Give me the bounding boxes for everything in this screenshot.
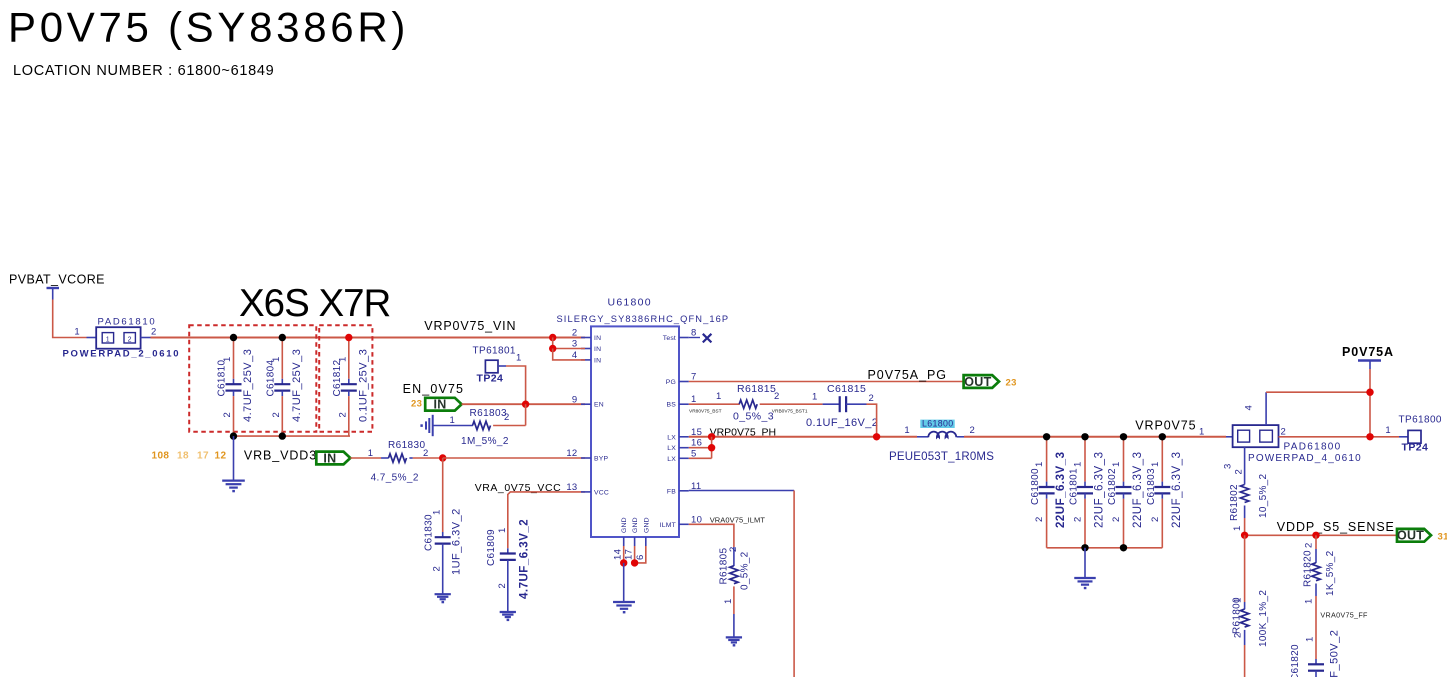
svg-text:1: 1 xyxy=(904,425,910,436)
svg-text:2: 2 xyxy=(1111,516,1122,522)
junction node VDDP-R61800 xyxy=(1241,532,1248,539)
svg-text:2: 2 xyxy=(728,546,739,552)
ground input caps xyxy=(222,480,245,482)
junction node at C61810 top xyxy=(230,334,237,341)
svg-text:6: 6 xyxy=(635,554,646,560)
svg-text:17: 17 xyxy=(197,451,209,462)
testpoint TP61801 xyxy=(485,360,498,373)
svg-text:GND: GND xyxy=(643,517,650,533)
svg-text:31: 31 xyxy=(1438,532,1447,543)
svg-text:C61830: C61830 xyxy=(424,514,435,551)
junction node C61800 top xyxy=(1043,433,1050,440)
pin 4 IN xyxy=(581,359,591,361)
svg-text:OUT: OUT xyxy=(964,375,991,389)
svg-text:1UF_6.3V_2: 1UF_6.3V_2 xyxy=(451,508,463,575)
junction node P0V75A-TP xyxy=(1366,433,1373,440)
svg-text:C61809: C61809 xyxy=(486,529,497,566)
svg-text:PAD61800: PAD61800 xyxy=(1284,442,1342,453)
pin 12 BYP xyxy=(581,457,591,459)
svg-text:VRP0V75_VIN: VRP0V75_VIN xyxy=(424,319,516,333)
svg-text:1: 1 xyxy=(1073,461,1084,467)
svg-text:0_5%_3: 0_5%_3 xyxy=(733,411,774,423)
svg-text:PEUE053T_1R0MS: PEUE053T_1R0MS xyxy=(889,451,994,463)
pin 9 EN xyxy=(581,403,591,405)
net P0V75A_PG xyxy=(689,381,964,383)
svg-text:PG: PG xyxy=(666,379,676,386)
junction node C61802 top xyxy=(1120,433,1127,440)
svg-text:4.7UF_6.3V_2: 4.7UF_6.3V_2 xyxy=(519,519,531,599)
svg-text:VCC: VCC xyxy=(594,489,609,496)
svg-text:VRP0V75: VRP0V75 xyxy=(1135,418,1196,432)
no-connect X on Test pin 8 xyxy=(689,337,700,339)
svg-text:10_5%_2: 10_5%_2 xyxy=(1258,474,1269,518)
capacitor C61801 xyxy=(1084,437,1086,482)
svg-text:2: 2 xyxy=(151,327,157,338)
wire VCC xyxy=(508,492,585,548)
wire LX pins to PH rail xyxy=(689,436,917,438)
svg-text:C61801: C61801 xyxy=(1069,468,1080,505)
junction node out gnd 1 xyxy=(1081,544,1088,551)
svg-text:13: 13 xyxy=(566,482,577,493)
svg-text:17: 17 xyxy=(624,549,635,560)
svg-text:LX: LX xyxy=(667,434,676,441)
svg-text:4.7UF_25V_3: 4.7UF_25V_3 xyxy=(291,349,303,422)
resistor R61830 xyxy=(389,454,407,462)
junction node LX16 xyxy=(708,444,715,451)
svg-text:1: 1 xyxy=(812,392,818,403)
svg-text:P0V75A: P0V75A xyxy=(1342,345,1394,359)
pin 10 ILMT xyxy=(679,523,689,525)
svg-text:2: 2 xyxy=(1233,632,1244,638)
resistor R61800 xyxy=(1244,535,1246,602)
capacitor C61812 xyxy=(348,338,350,379)
svg-text:2: 2 xyxy=(337,412,348,418)
resistor R61803 xyxy=(433,425,473,427)
svg-text:22UF_6.3V_3: 22UF_6.3V_3 xyxy=(1094,452,1106,528)
wire output caps bottom rail xyxy=(1047,547,1163,549)
testpoint TP61800 xyxy=(1408,430,1421,443)
wire input caps bottom rail xyxy=(234,435,351,437)
svg-text:SILERGY_SY8386RHC_QFN_16P: SILERGY_SY8386RHC_QFN_16P xyxy=(557,314,730,324)
junction node at C61804 top xyxy=(279,334,286,341)
svg-text:2: 2 xyxy=(774,391,780,402)
svg-text:TP24: TP24 xyxy=(477,373,504,385)
svg-text:2: 2 xyxy=(271,412,282,418)
svg-text:9: 9 xyxy=(572,394,578,405)
wire R61830 to BYP junction xyxy=(409,457,412,459)
junction node C61815 tap xyxy=(873,433,880,440)
svg-text:X6S X7R: X6S X7R xyxy=(239,282,391,325)
port IN EN_0V75 xyxy=(425,398,461,411)
svg-text:14: 14 xyxy=(613,549,624,560)
svg-text:C61815: C61815 xyxy=(827,383,866,395)
wire PH to output caps rail xyxy=(964,436,1226,438)
svg-text:2: 2 xyxy=(1150,516,1161,522)
svg-text:22UF_6.3V_3: 22UF_6.3V_3 xyxy=(1171,452,1183,528)
resistor R61802 xyxy=(1244,447,1246,484)
svg-text:VRB0V75_BST1: VRB0V75_BST1 xyxy=(772,409,808,415)
svg-text:1: 1 xyxy=(497,527,508,533)
wire PVBAT_VCORE to PAD61810 pin1 xyxy=(53,300,87,338)
svg-text:C61820: C61820 xyxy=(1290,644,1301,677)
svg-text:108: 108 xyxy=(152,451,170,462)
pin 4 wire to P0V75A xyxy=(1265,392,1267,425)
svg-text:C61810: C61810 xyxy=(217,360,228,397)
svg-text:2: 2 xyxy=(1304,542,1315,548)
junction node GND17 xyxy=(631,559,638,566)
svg-text:2: 2 xyxy=(1034,516,1045,522)
svg-text:2: 2 xyxy=(1281,427,1287,438)
svg-text:FB: FB xyxy=(667,488,676,495)
wire to ground xyxy=(1084,548,1086,578)
capacitor C61820 xyxy=(1308,663,1324,665)
svg-text:POWERPAD_4_0610: POWERPAD_4_0610 xyxy=(1248,453,1362,464)
pin 8 Test xyxy=(679,337,689,339)
svg-text:1: 1 xyxy=(1385,425,1391,436)
resistor R61815 xyxy=(739,400,757,408)
svg-text:2: 2 xyxy=(222,412,233,418)
wire PAD61810 pin2 to VIN rail xyxy=(141,337,151,339)
svg-text:LX: LX xyxy=(667,445,676,452)
svg-text:12: 12 xyxy=(215,451,227,462)
svg-text:GND: GND xyxy=(621,517,628,533)
svg-text:TP61800: TP61800 xyxy=(1399,415,1442,426)
dashed selection box around C61812 xyxy=(319,325,372,431)
svg-text:1: 1 xyxy=(1304,598,1315,604)
wire R61803 pin2 to EN vertical xyxy=(493,425,525,427)
svg-text:18: 18 xyxy=(177,451,189,462)
junction node GND14 xyxy=(620,559,627,566)
pin 3 IN xyxy=(581,348,591,350)
svg-text:L61800: L61800 xyxy=(922,419,953,429)
svg-text:R61800: R61800 xyxy=(1232,597,1243,634)
junction node VIN pin2 xyxy=(549,334,556,341)
ground output caps xyxy=(1074,577,1095,579)
pin 13 VCC xyxy=(581,491,591,493)
capacitor C61810 xyxy=(233,338,235,379)
svg-text:4.7_5%_2: 4.7_5%_2 xyxy=(371,473,419,484)
svg-text:0.1UF_50V_2: 0.1UF_50V_2 xyxy=(1329,630,1341,677)
svg-text:LOCATION NUMBER : 61800~61849: LOCATION NUMBER : 61800~61849 xyxy=(13,63,274,79)
pin 11 FB xyxy=(679,490,689,492)
svg-text:P0V75 (SY8386R): P0V75 (SY8386R) xyxy=(8,4,409,51)
svg-text:TP61801: TP61801 xyxy=(473,346,516,357)
svg-text:3: 3 xyxy=(1223,463,1234,469)
svg-text:4: 4 xyxy=(1244,405,1255,411)
wire ILMT xyxy=(689,524,734,547)
svg-text:R61802: R61802 xyxy=(1229,484,1240,521)
svg-text:1M_5%_2: 1M_5%_2 xyxy=(461,436,509,447)
capacitor C61802 xyxy=(1123,437,1125,482)
junction node C61801 top xyxy=(1081,433,1088,440)
capacitor C61804 xyxy=(281,338,283,379)
svg-text:0.1UF_16V_2: 0.1UF_16V_2 xyxy=(806,417,878,429)
ground R61805 xyxy=(726,636,742,638)
pin 6 GND xyxy=(645,537,647,546)
pad PAD61810 POWERPAD_2_0610 xyxy=(96,327,140,349)
svg-text:OUT: OUT xyxy=(1397,529,1424,543)
capacitor C61809 xyxy=(500,552,516,554)
inductor L61800 xyxy=(920,420,954,428)
capacitor C61815 xyxy=(839,396,841,412)
svg-text:GND: GND xyxy=(632,517,639,533)
svg-text:1: 1 xyxy=(432,509,443,515)
junction node VDDP-R61820 xyxy=(1312,532,1319,539)
svg-text:23: 23 xyxy=(1006,378,1017,389)
ground C61830 xyxy=(435,593,451,595)
svg-text:BYP: BYP xyxy=(594,456,608,463)
svg-text:R61803: R61803 xyxy=(470,408,507,419)
wire R61815 to C61815 xyxy=(760,403,823,405)
port OUT P0V75A_PG xyxy=(964,375,999,388)
junction node input gnd rail mid xyxy=(279,432,286,439)
svg-text:PAD61810: PAD61810 xyxy=(98,316,157,327)
svg-text:EN_0V75: EN_0V75 xyxy=(403,382,465,396)
pin 1 BS xyxy=(679,403,689,405)
capacitor C61830 xyxy=(442,458,444,532)
svg-text:1: 1 xyxy=(1111,461,1122,467)
svg-text:ILMT: ILMT xyxy=(660,522,676,529)
svg-text:2: 2 xyxy=(1073,516,1084,522)
svg-text:Test: Test xyxy=(663,335,676,342)
svg-text:1: 1 xyxy=(1150,461,1161,467)
svg-text:1: 1 xyxy=(337,356,348,362)
svg-text:C61802: C61802 xyxy=(1107,468,1118,505)
svg-text:1: 1 xyxy=(516,353,522,364)
wire FB xyxy=(689,490,794,492)
svg-text:C61800: C61800 xyxy=(1030,468,1041,505)
pin 5 LX xyxy=(679,457,689,459)
svg-text:12: 12 xyxy=(566,448,577,459)
pin 16 LX xyxy=(679,447,689,449)
resistor R61805 xyxy=(733,547,735,566)
svg-text:1: 1 xyxy=(106,336,110,343)
dashed selection box around C61810 C61804 xyxy=(189,325,316,431)
pad PAD61800 POWERPAD_4_0610 xyxy=(1233,425,1279,447)
svg-text:IN: IN xyxy=(594,335,601,342)
svg-text:VR80V75_BST: VR80V75_BST xyxy=(689,409,722,415)
net VRA0V75_FF xyxy=(1315,596,1317,659)
svg-text:IN: IN xyxy=(323,451,336,465)
junction node C61803 top xyxy=(1159,433,1166,440)
resistor R61820 xyxy=(1315,535,1317,549)
junction node out gnd 2 xyxy=(1120,544,1127,551)
svg-text:1: 1 xyxy=(1232,525,1243,531)
wire EN net xyxy=(462,403,585,405)
svg-text:2: 2 xyxy=(869,393,875,404)
svg-text:VRB_VDD3: VRB_VDD3 xyxy=(244,449,317,463)
pin 7 PG xyxy=(679,381,689,383)
ground left of R61803 xyxy=(432,415,434,436)
svg-text:2: 2 xyxy=(504,412,510,423)
pin 2 IN xyxy=(581,337,591,339)
svg-text:2: 2 xyxy=(572,328,578,339)
svg-text:1: 1 xyxy=(222,356,233,362)
svg-text:IN: IN xyxy=(594,357,601,364)
junction node BYP xyxy=(439,454,446,461)
svg-text:100K_1%_2: 100K_1%_2 xyxy=(1258,590,1269,647)
svg-text:IN: IN xyxy=(594,346,601,353)
ground IC xyxy=(613,601,635,603)
svg-text:1: 1 xyxy=(271,356,282,362)
ground C61809 xyxy=(500,611,516,613)
svg-text:1: 1 xyxy=(1199,427,1205,438)
svg-text:1: 1 xyxy=(368,448,374,459)
svg-text:VDDP_S5_SENSE: VDDP_S5_SENSE xyxy=(1277,520,1395,534)
svg-text:22UF_6.3V_3: 22UF_6.3V_3 xyxy=(1132,452,1144,528)
wire FB down (off page) xyxy=(793,491,795,677)
svg-text:R61815: R61815 xyxy=(737,383,776,395)
BS pin wire and net names xyxy=(689,403,740,405)
svg-text:1: 1 xyxy=(716,391,722,402)
svg-text:VRA0V75_ILMT: VRA0V75_ILMT xyxy=(710,515,766,524)
svg-text:LX: LX xyxy=(667,456,676,463)
wire pad pin2 to TP61800 xyxy=(1279,436,1400,438)
wire port to R61830 xyxy=(350,457,381,459)
junction node EN xyxy=(522,401,529,408)
svg-text:C61812: C61812 xyxy=(332,360,343,397)
junction node LX15 xyxy=(708,433,715,440)
svg-text:IN: IN xyxy=(433,398,446,412)
svg-text:2: 2 xyxy=(432,566,443,572)
svg-text:POWERPAD_2_0610: POWERPAD_2_0610 xyxy=(63,349,181,360)
wire BYP junction to IC pin 12 xyxy=(443,457,585,459)
port IN VRB_VDD3 xyxy=(316,452,350,465)
junction node VIN pin3 xyxy=(549,345,556,352)
svg-text:1K_5%_2: 1K_5%_2 xyxy=(1325,550,1336,596)
capacitor C61800 xyxy=(1046,437,1048,482)
svg-text:2: 2 xyxy=(497,583,508,589)
svg-text:C61804: C61804 xyxy=(265,360,276,397)
svg-text:R61820: R61820 xyxy=(1303,550,1314,587)
svg-text:PVBAT_VCORE: PVBAT_VCORE xyxy=(9,273,105,287)
svg-text:1: 1 xyxy=(1305,636,1316,642)
svg-text:1: 1 xyxy=(74,327,80,338)
pin 17 GND xyxy=(634,537,636,546)
svg-text:R61805: R61805 xyxy=(719,548,730,585)
svg-text:VRA0V75_FF: VRA0V75_FF xyxy=(1320,611,1368,620)
svg-text:1: 1 xyxy=(1034,461,1045,467)
svg-text:2: 2 xyxy=(970,425,976,436)
svg-text:0.1UF_25V_3: 0.1UF_25V_3 xyxy=(357,349,369,422)
svg-text:R61830: R61830 xyxy=(388,440,425,451)
svg-text:C61803: C61803 xyxy=(1146,468,1157,505)
junction node at C61812 top xyxy=(345,334,352,341)
wire C61815 to PH xyxy=(846,403,866,405)
wire GND pins xyxy=(623,546,625,563)
svg-text:EN: EN xyxy=(594,402,604,409)
svg-text:1: 1 xyxy=(450,415,456,426)
pin 15 LX xyxy=(679,436,689,438)
svg-text:23: 23 xyxy=(411,399,422,410)
svg-text:2: 2 xyxy=(128,336,132,343)
svg-text:0_5%_2: 0_5%_2 xyxy=(740,551,751,590)
svg-text:1: 1 xyxy=(723,598,734,604)
junction node P0V75A-pin4 xyxy=(1366,389,1373,396)
svg-text:22UF_6.3V_3: 22UF_6.3V_3 xyxy=(1055,452,1067,528)
svg-text:TP24: TP24 xyxy=(1402,442,1429,454)
wire TP61801 pin1 xyxy=(498,365,506,367)
svg-text:U61800: U61800 xyxy=(608,297,652,309)
svg-text:2: 2 xyxy=(1234,469,1245,475)
wire to ground xyxy=(233,436,235,481)
svg-text:4.7UF_25V_3: 4.7UF_25V_3 xyxy=(242,349,254,422)
capacitor C61803 xyxy=(1161,437,1163,482)
svg-text:P0V75A_PG: P0V75A_PG xyxy=(868,368,947,382)
junction node input gnd rail left xyxy=(230,432,237,439)
port OUT VDDP_S5_SENSE xyxy=(1397,529,1431,542)
pin 14 GND xyxy=(623,537,625,546)
svg-text:BS: BS xyxy=(667,402,677,409)
